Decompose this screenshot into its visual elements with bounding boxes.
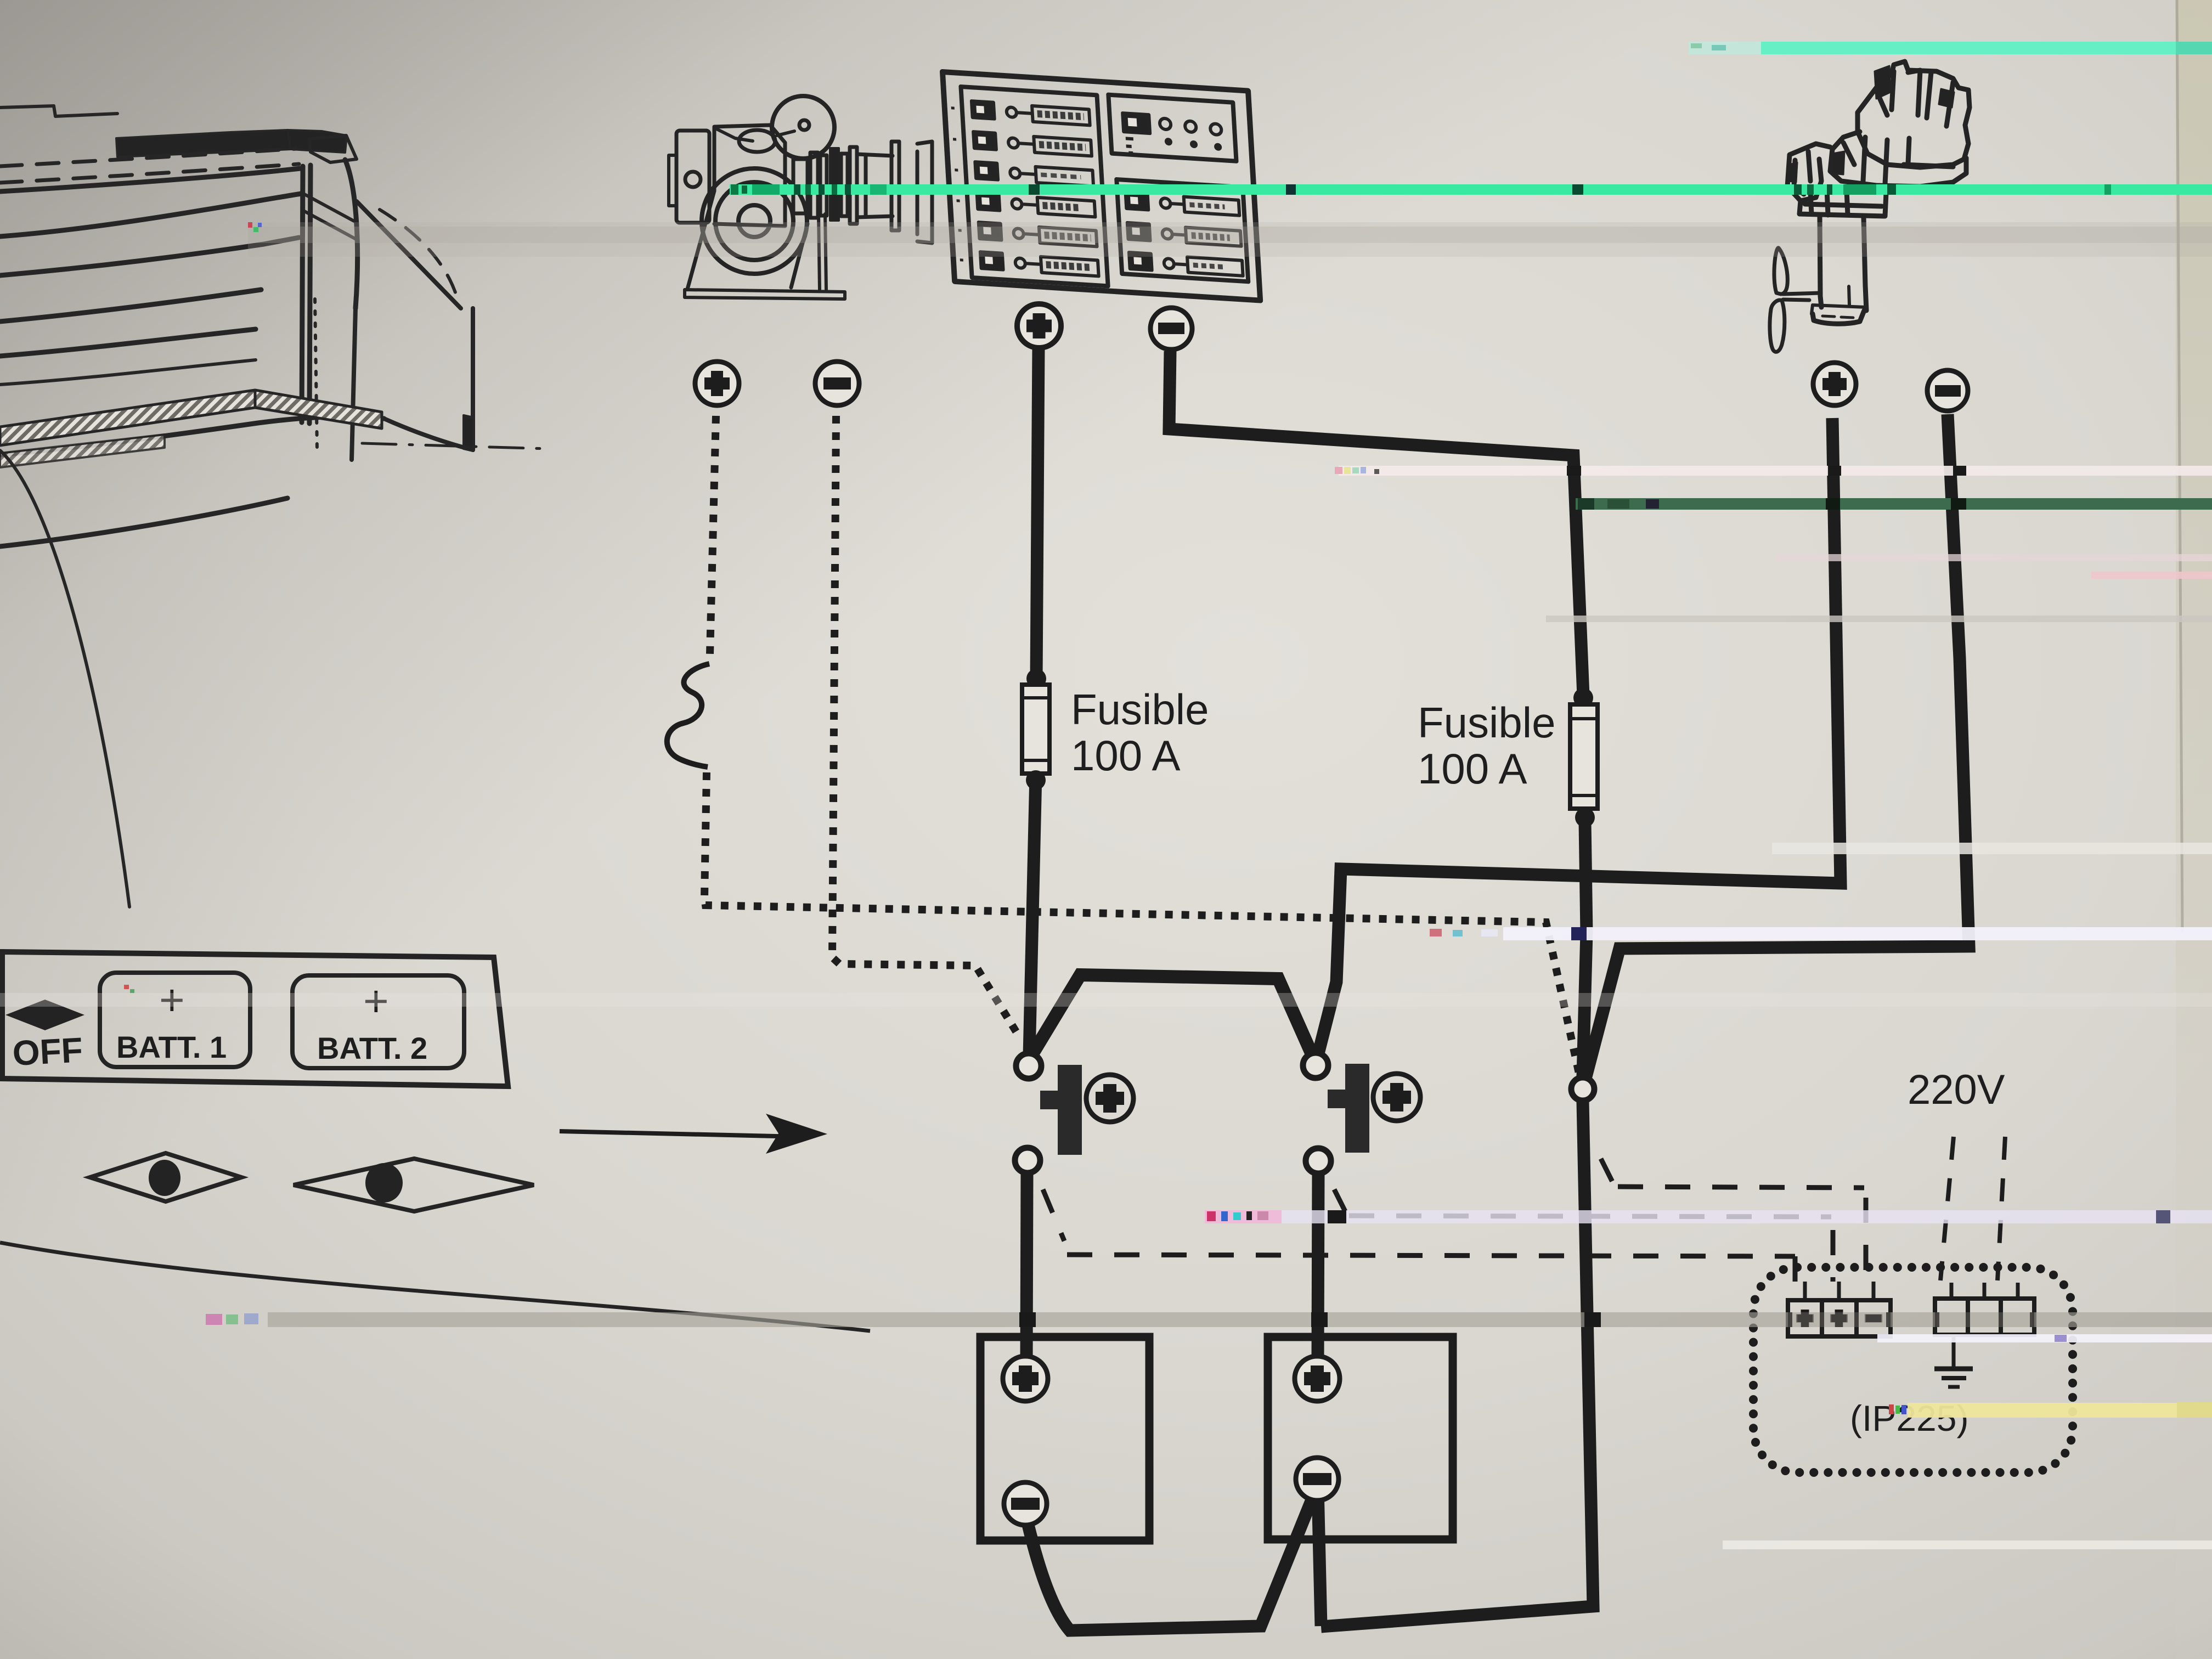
windlass base triangle right: [791, 224, 808, 287]
locker door diagonal: [357, 201, 461, 308]
dash-dot base line: [362, 443, 549, 449]
windlass right bracket: [917, 142, 932, 243]
dotted wire from windlass - down: [832, 416, 1019, 1037]
node junction circle: [1571, 1077, 1594, 1101]
direction arrow head: [766, 1114, 827, 1154]
glitch white-blue band I: [1877, 1334, 2212, 1342]
sheer line: [0, 168, 301, 191]
glitch lavender band lower: [1205, 1210, 1282, 1223]
windlass motor left bracket: [676, 131, 709, 223]
windlass capstan disc: [772, 96, 834, 159]
battery B1: [980, 1337, 1149, 1541]
wire switch2 up and right to motor +: [1317, 418, 1841, 1058]
panel - terminal: [1150, 308, 1192, 349]
glitch faint wide band: [0, 993, 2212, 1007]
clamp bracket body: [1799, 187, 1886, 216]
cowl inner lines: [1876, 70, 1953, 126]
svg-text:220V: 220V: [1908, 1066, 2005, 1113]
BATT.2 box: [292, 975, 464, 1068]
windlass hawse ellipse: [739, 130, 775, 152]
hull bottom edge: [0, 416, 384, 455]
fuse F2 100A: [1570, 688, 1598, 827]
bracket inner: [1794, 151, 1810, 194]
wire switch1 to battery1 +: [1026, 1172, 1027, 1361]
svg-text:100 A: 100 A: [1071, 731, 1181, 780]
wire junction down to bottom corner: [1321, 1102, 1593, 1627]
bulkhead cross diagonals: [303, 194, 356, 239]
charger DC terminal block: [1788, 1282, 1891, 1336]
svg-text:OFF: OFF: [12, 1030, 84, 1073]
clamp lines: [1805, 189, 1882, 215]
keel black stub: [464, 415, 473, 451]
black patch bracket: [1788, 162, 1797, 182]
windlass base plate: [685, 290, 845, 299]
propeller hub shaft: [1783, 293, 1820, 300]
windlass gear body: [714, 125, 785, 226]
wire battery1 - to battery2 -: [1025, 1489, 1316, 1630]
bottom edge to keel: [384, 419, 473, 450]
wire fuse2 down to junction: [1583, 822, 1587, 1076]
mount bracket left: [1787, 144, 1830, 201]
wire deck step line: [0, 106, 117, 116]
lower hull curve: [0, 498, 287, 546]
windlass drum hub: [738, 205, 770, 237]
battery selector panel box: [2, 952, 508, 1086]
dashed charger line from junction wire: [1601, 1159, 1866, 1282]
battery switch S2: [1303, 1053, 1420, 1173]
mid block details: [1843, 137, 1953, 184]
svg-text:Fusible: Fusible: [1071, 685, 1209, 733]
windlass capstan pin: [799, 120, 809, 130]
dashed charger line from switch2 area: [1334, 1189, 1833, 1282]
windlass gypsy plate 1: [793, 159, 808, 213]
anchor locker bulkhead verticals: [302, 165, 311, 424]
eye symbol 2: [294, 1159, 534, 1211]
motor + terminal: [1813, 363, 1856, 405]
windlass drum mid: [715, 182, 793, 260]
direction arrow shaft: [560, 1131, 801, 1137]
glitch gray band E: [206, 1314, 222, 1325]
stem curve: [345, 160, 358, 308]
cowl black patch 2: [1939, 89, 1954, 108]
hull line 2: [0, 194, 301, 236]
windlass drum flange left: [850, 147, 857, 224]
windlass - terminal: [815, 362, 859, 405]
battery B2: [1268, 1337, 1453, 1539]
windlass body slant line: [716, 129, 753, 141]
leg bottom: [1813, 311, 1864, 324]
windlass capstan radial: [777, 131, 794, 136]
panel right top box: [1108, 95, 1236, 161]
outboard motor drawing: [1770, 61, 1970, 352]
svg-text:100 A: 100 A: [1418, 744, 1527, 793]
locker interior dotted vertical: [315, 299, 317, 450]
lower hull shade band: [0, 435, 165, 467]
deck hidden dashed line 1: [0, 149, 296, 166]
propeller lower blade: [1770, 300, 1785, 352]
chine line 2: [0, 329, 256, 356]
leg dash: [1822, 316, 1853, 318]
deck hidden dashed line 2: [0, 164, 299, 183]
panel left edge tick marks: [951, 108, 963, 260]
powerhead mid block: [1830, 132, 1966, 187]
waterline hatched strip left: [0, 390, 255, 445]
charger AC terminal block: [1935, 1283, 2034, 1335]
section cut vertical: [471, 308, 475, 450]
glitch pink-white band: [1339, 466, 2212, 476]
fuse F1 100A: [1022, 669, 1049, 790]
waterline hatched strip right: [255, 390, 382, 428]
glitch white band H: [1723, 1541, 2212, 1549]
glitch lavender band: [1430, 929, 1442, 936]
windlass drum barrel: [857, 154, 893, 217]
BATT.1 box: [100, 973, 250, 1067]
windlass gypsy plate 2: [810, 153, 818, 218]
hull line 3: [0, 238, 299, 275]
chine line 1: [0, 290, 261, 321]
220V dashed feed lines: [1940, 1137, 2005, 1280]
windlass drum outer: [702, 168, 807, 274]
wire panel- right and down to fuse2: [1169, 351, 1583, 696]
svg-text:BATT. 1: BATT. 1: [116, 1030, 227, 1064]
toe rail bow piece: [287, 130, 347, 153]
eye 1 pupil: [149, 1160, 180, 1196]
svg-text:Fusible: Fusible: [1418, 698, 1555, 747]
windlass base triangle left: [687, 191, 714, 289]
ground symbol: [1934, 1335, 1973, 1387]
glitch green band: [730, 184, 2212, 195]
motor cowl outline: [1858, 61, 1970, 167]
motor - terminal: [1927, 370, 1968, 411]
left breaker rows: [972, 101, 1099, 276]
keel line long: [0, 450, 129, 907]
windlass gypsy plate 3: [820, 155, 827, 216]
windlass drum flange right: [891, 142, 899, 230]
stem lower: [352, 308, 356, 460]
battery switch S1: [1015, 1053, 1133, 1173]
right bottom rows: [1126, 192, 1243, 276]
interior line: [0, 360, 256, 385]
toe rail black band: [116, 130, 291, 157]
panel + terminal: [1017, 304, 1061, 348]
black patch 3: [1831, 151, 1844, 174]
glitch cyan band top: [1689, 42, 1765, 54]
windlass motor left tab: [669, 155, 676, 206]
shaft left edge: [1820, 216, 1821, 307]
glitch faint pink line: [1775, 554, 2212, 561]
wire motor - down left to junction: [1585, 414, 1969, 1079]
glitch pink line right: [2091, 572, 2212, 579]
page right edge: [0, 0, 1, 1]
wire battery2 - down to bottom rail: [1318, 1488, 1321, 1626]
panel right bottom box: [1116, 179, 1248, 281]
hull bottom long arc: [0, 1243, 870, 1331]
windlass gypsy black divider: [830, 148, 839, 221]
boat hull section drawing (top-left): [0, 106, 549, 907]
selector knob diamond: [5, 1000, 84, 1030]
glitch gray band A: [248, 222, 2212, 257]
tiny specks near BATT.1: [124, 985, 129, 989]
eye symbol 1: [90, 1153, 241, 1201]
cowl black patch 1: [1875, 66, 1891, 99]
charger IP225 dotted box: [1753, 1267, 2073, 1472]
windlass drawing: [669, 96, 932, 299]
windlass support column: [819, 214, 826, 290]
svg-text:BATT. 2: BATT. 2: [317, 1031, 427, 1065]
windlass + terminal: [695, 362, 739, 405]
anti-cavitation plate: [1812, 286, 1866, 314]
inductor squiggle on windlass + wire: [667, 664, 709, 767]
dashed charger line from switch1 area: [1043, 1189, 1795, 1282]
right top switch and indicator lights: [1122, 113, 1223, 159]
windlass motor hole: [685, 172, 701, 187]
jumper wire switch1 to switch2: [1031, 975, 1313, 1058]
bow head fitting: [309, 136, 357, 162]
shaft right edge: [1864, 217, 1866, 311]
dotted wire from windlass + down: [710, 416, 716, 654]
glitch white band mid right: [1772, 843, 2212, 854]
glitch yellow band: [1889, 1404, 1894, 1414]
panel outer border: [943, 72, 1260, 301]
panel inner left breaker box: [961, 87, 1108, 286]
propeller upper blade: [1774, 248, 1787, 294]
windlass gypsy plate 4: [841, 154, 848, 216]
glitch dark green band: [1576, 498, 2212, 510]
distribution panel U1: [943, 72, 1260, 301]
wire switch2 to battery2 +: [1318, 1173, 1318, 1361]
wire panel+ to fuse1 to switch1: [1029, 347, 1039, 1056]
eye 2 pupil: [365, 1163, 403, 1203]
dotted wire windlass + lower: [704, 772, 1579, 1073]
glitch faint gray line: [1546, 616, 2212, 622]
locker door dashed arc: [380, 210, 458, 299]
